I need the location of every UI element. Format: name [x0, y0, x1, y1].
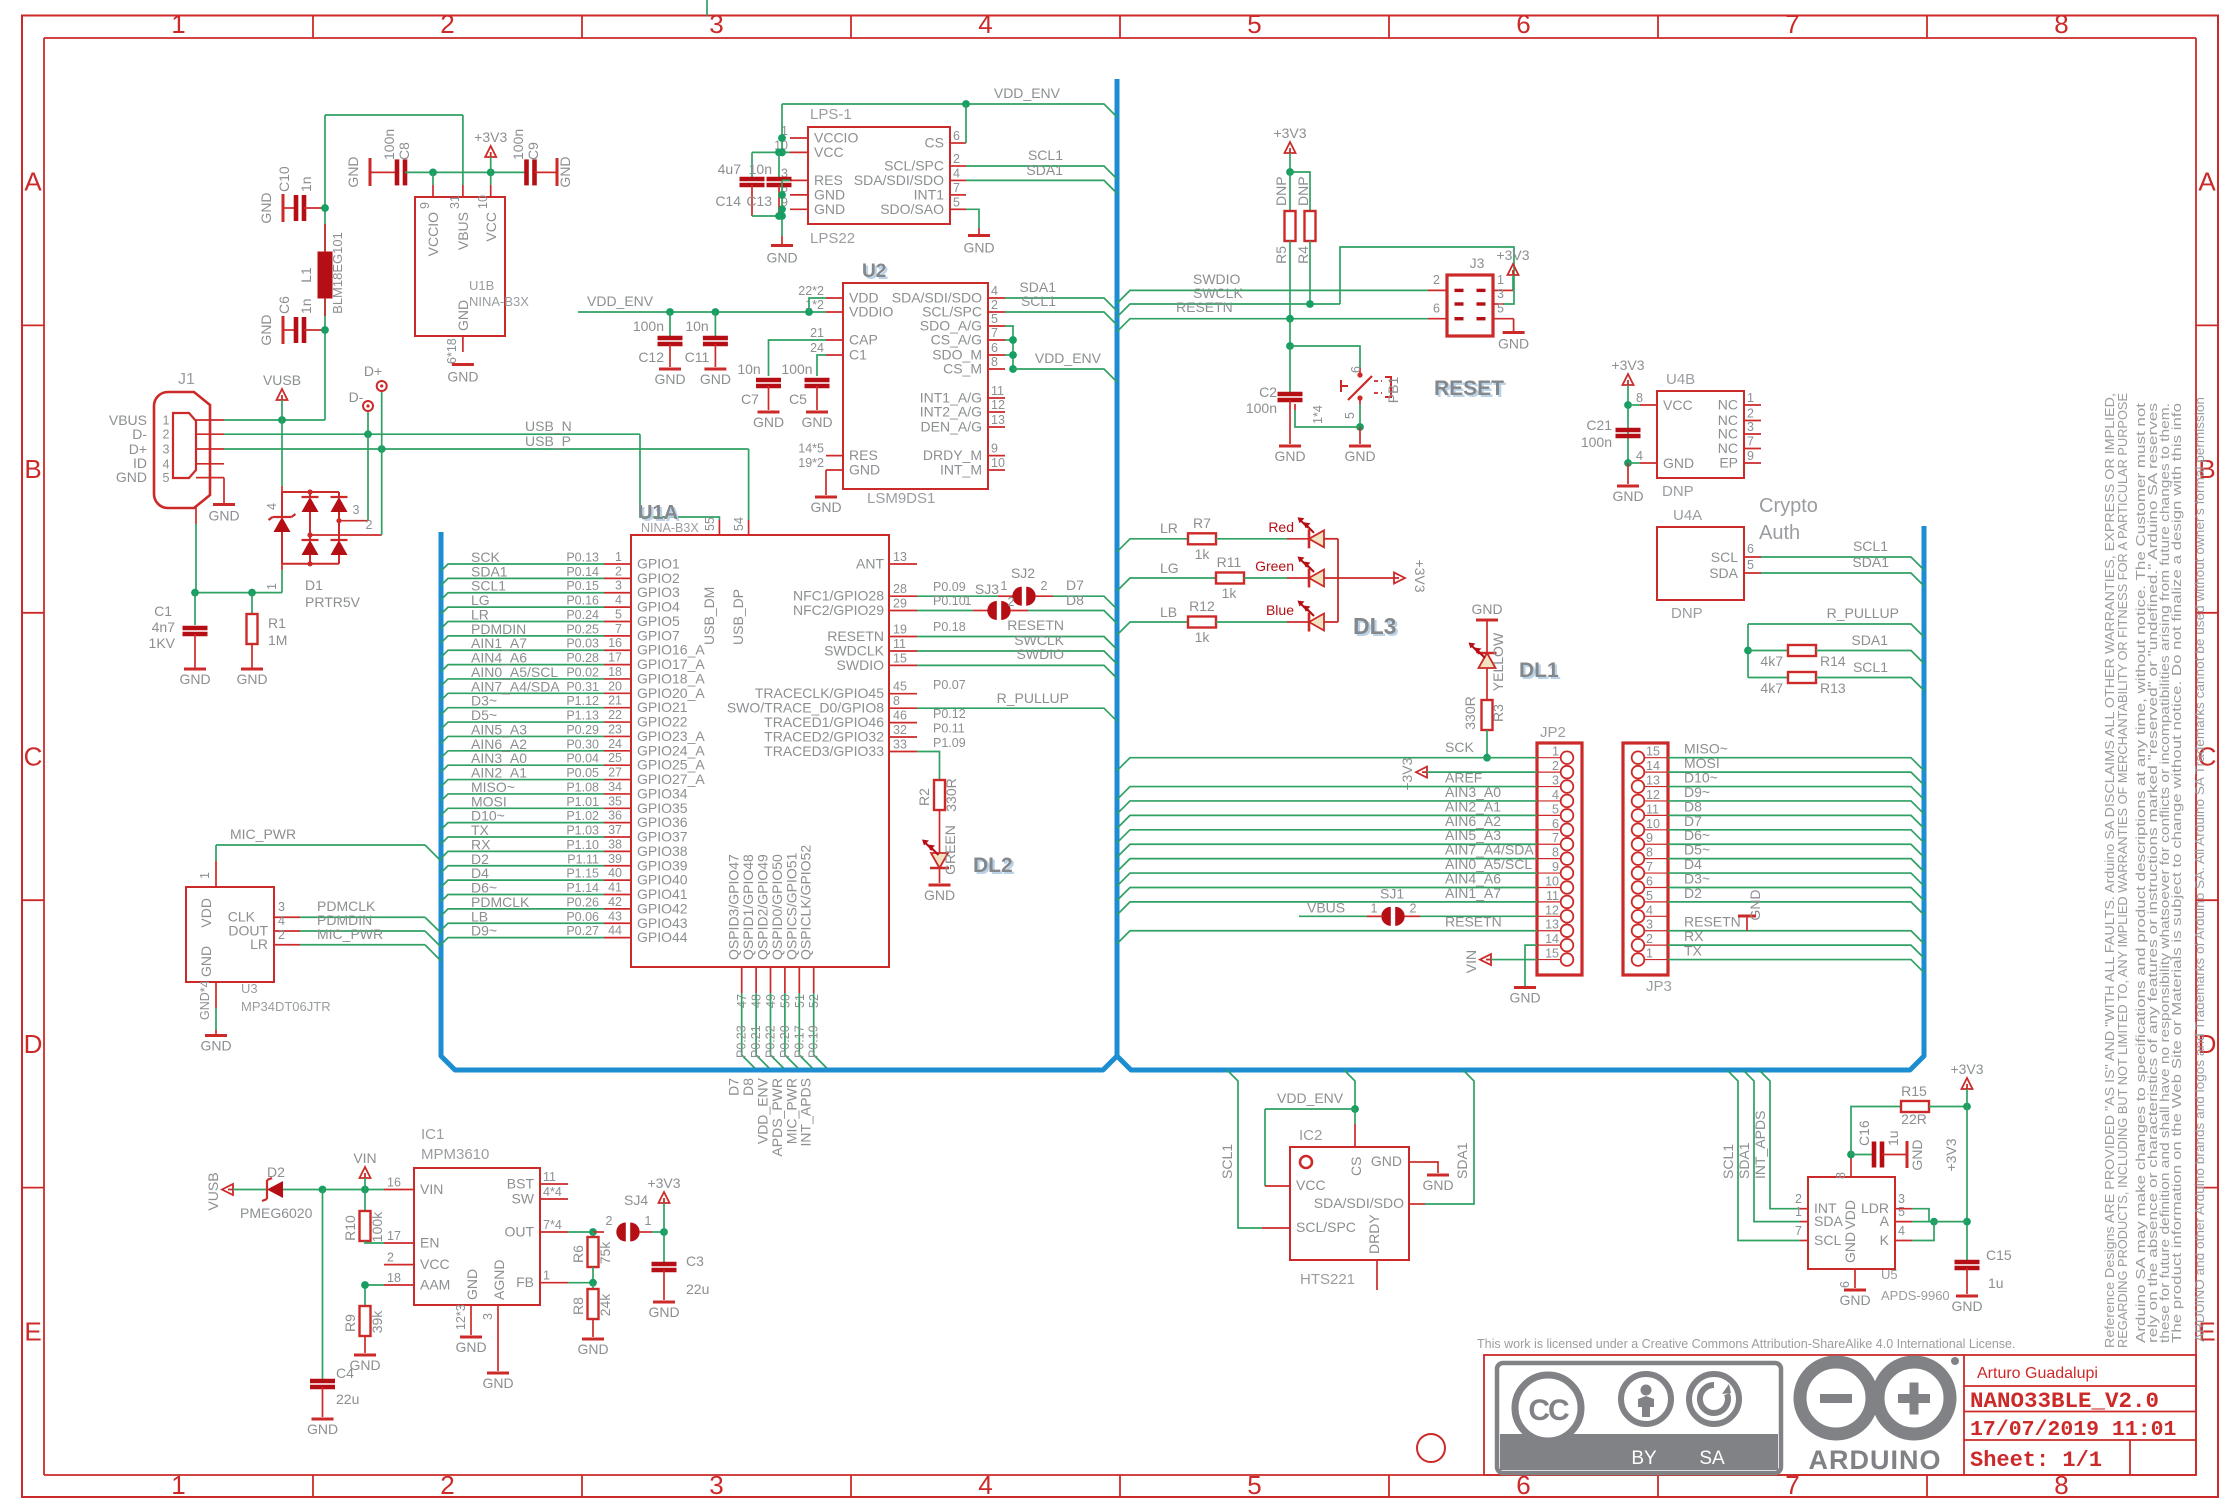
diode D2 PMEG6020: [233, 1189, 267, 1191]
svg-text:1k: 1k: [1195, 629, 1211, 645]
svg-text:27: 27: [608, 766, 622, 780]
svg-text:14: 14: [1646, 759, 1660, 773]
svg-text:3: 3: [1898, 1192, 1905, 1206]
svg-text:DL1: DL1: [1519, 659, 1559, 682]
junction VBUS C6: [321, 326, 329, 334]
svg-text:1u: 1u: [1988, 1275, 2004, 1291]
svg-text:8: 8: [1834, 1172, 1848, 1179]
svg-text:ARDUINO and other Arduino bran: ARDUINO and other Arduino brands and log…: [2193, 397, 2207, 1342]
svg-text:SJ3: SJ3: [975, 581, 999, 597]
pin 19 RESETN of U1A: [889, 636, 917, 638]
svg-text:Green: Green: [1255, 558, 1294, 574]
svg-text:R11: R11: [1217, 554, 1242, 570]
svg-text:SCL: SCL: [1711, 549, 1738, 565]
svg-text:P0.25: P0.25: [566, 622, 599, 636]
svg-text:C5: C5: [789, 391, 807, 407]
wire OUT to SJ4: [568, 1231, 593, 1233]
svg-text:34: 34: [608, 780, 622, 794]
pin AGND of IC1: [497, 1305, 499, 1371]
svg-text:1k: 1k: [1195, 546, 1211, 562]
wire SDA1 from LPS: [966, 180, 1117, 193]
svg-text:A: A: [2198, 167, 2216, 197]
wire D7 from JP3: [1668, 830, 1924, 843]
svg-text:GND: GND: [1509, 990, 1540, 1006]
junction VDD_ENV CS: [962, 100, 970, 108]
capacitor C4 22u: [322, 1190, 324, 1380]
ground at J3 pin5: [1513, 319, 1515, 331]
svg-text:5: 5: [1552, 802, 1559, 816]
svg-text:10: 10: [991, 456, 1005, 470]
svg-text:P0.26: P0.26: [566, 895, 599, 909]
svg-text:GND: GND: [258, 314, 274, 345]
svg-text:SA: SA: [1699, 1448, 1725, 1469]
svg-text:GND: GND: [753, 414, 784, 430]
svg-text:J3: J3: [1470, 255, 1485, 271]
svg-text:1*4: 1*4: [1311, 405, 1325, 424]
svg-text:MPM3610: MPM3610: [421, 1146, 489, 1163]
svg-text:GND: GND: [198, 946, 214, 977]
svg-text:GND: GND: [1909, 1139, 1925, 1170]
svg-text:+3V3: +3V3: [1496, 247, 1529, 263]
svg-text:R13: R13: [1820, 680, 1846, 696]
svg-text:1: 1: [1646, 947, 1653, 961]
resistor R1 1M: [251, 593, 253, 614]
svg-text:9: 9: [418, 202, 432, 209]
wire D3~ from JP3: [1668, 887, 1924, 900]
svg-text:R7: R7: [1193, 515, 1211, 531]
svg-text:SWDIO: SWDIO: [1017, 646, 1065, 662]
svg-text:4: 4: [265, 503, 279, 510]
ground at DL2: [929, 884, 951, 887]
wire net PDMDIN to U1A pin 7: [441, 636, 604, 643]
junction SJ4 3V3: [660, 1228, 668, 1236]
wire LR to R7: [1117, 539, 1188, 552]
power VUSB arrow left: [222, 1184, 233, 1195]
wire AIN2_A1 to JP2 pin 5: [1117, 815, 1537, 828]
pin 6*18 GND of U1B: [462, 336, 464, 352]
pin VDD of U5: [1850, 1156, 1852, 1177]
svg-text:CS_M: CS_M: [943, 361, 982, 377]
svg-text:ANT: ANT: [856, 556, 884, 572]
svg-text:SDA1: SDA1: [1851, 632, 1888, 648]
wire CAP to C7: [769, 340, 827, 376]
svg-text:2: 2: [440, 9, 454, 39]
ic U1A NINA-B3X module: [631, 535, 889, 967]
wire net MISO~ to U1A pin 34: [441, 794, 604, 801]
ground at C9: [556, 158, 559, 186]
svg-text:P1.11: P1.11: [567, 852, 599, 866]
svg-text:GND: GND: [200, 1038, 231, 1054]
wire net AIN7_A4/SDA to U1A pin 20: [441, 693, 604, 700]
svg-text:D8: D8: [1066, 592, 1084, 608]
svg-text:SJ1: SJ1: [1380, 885, 1404, 901]
svg-text:PB1: PB1: [1385, 377, 1401, 404]
svg-text:R2: R2: [916, 788, 932, 806]
svg-text:VCC: VCC: [420, 1256, 450, 1272]
capacitor C11 10n: [714, 312, 716, 336]
wire GND to JP2 pin14: [1525, 945, 1537, 986]
svg-text:VDDIO: VDDIO: [849, 304, 893, 320]
svg-text:24: 24: [810, 341, 824, 355]
bus left: [441, 79, 1117, 1070]
capacitor C1 4n7 1KV: [194, 593, 196, 625]
svg-text:6: 6: [1838, 1281, 1852, 1288]
junction R15: [1963, 1103, 1971, 1111]
wire AIN7_A4/SDA to JP2 pin 8: [1117, 859, 1537, 872]
svg-text:LPS22: LPS22: [810, 230, 855, 247]
led DL3 blue: [1309, 614, 1324, 631]
svg-text:BLM18EG101: BLM18EG101: [330, 232, 345, 314]
svg-text:+3V3: +3V3: [1611, 357, 1644, 373]
svg-text:R1: R1: [268, 615, 286, 631]
ground at C11: [704, 368, 726, 371]
svg-text:1: 1: [965, 594, 972, 608]
svg-text:7: 7: [1795, 1224, 1802, 1238]
svg-text:GND: GND: [801, 414, 832, 430]
svg-text:GND: GND: [345, 156, 361, 187]
svg-text:SCL1: SCL1: [1853, 659, 1888, 675]
svg-text:SCL1: SCL1: [1720, 1144, 1736, 1179]
ground at C2: [1279, 445, 1301, 448]
svg-text:1n: 1n: [298, 298, 314, 314]
svg-text:5: 5: [615, 607, 622, 621]
svg-text:39k: 39k: [369, 1310, 385, 1334]
capacitor C2 100n: [1289, 346, 1291, 392]
resistor R14 4k7: [1748, 650, 1788, 652]
wire PB1 1*4 branch: [1295, 410, 1360, 427]
wire SWDIO to J3: [1117, 290, 1428, 303]
svg-text:330R: 330R: [943, 778, 959, 811]
wire net AIN5_A3 to U1A pin 23: [441, 736, 604, 743]
ground at JP3 RESETN: [1746, 916, 1748, 931]
svg-text:100n: 100n: [633, 318, 664, 334]
pin 15 SWDIO of U1A: [889, 664, 917, 666]
ground at C15: [1956, 1295, 1978, 1298]
svg-text:12: 12: [991, 398, 1005, 412]
svg-text:R14: R14: [1820, 653, 1846, 669]
svg-text:FB: FB: [516, 1274, 534, 1290]
svg-text:NINA-B3X: NINA-B3X: [641, 521, 699, 535]
svg-text:P1.02: P1.02: [566, 809, 599, 823]
power +3V3 at J3: [1508, 264, 1519, 275]
svg-text:C11: C11: [685, 349, 710, 365]
junction D-: [364, 430, 372, 438]
ground at C3: [653, 1301, 675, 1304]
svg-text:7: 7: [1785, 9, 1799, 39]
wire D2 from JP3: [1668, 902, 1924, 915]
svg-text:GND: GND: [1612, 488, 1643, 504]
wire R_PULLUP right: [1748, 624, 1924, 637]
svg-text:SCL1: SCL1: [1021, 293, 1056, 309]
svg-text:VIN: VIN: [1463, 950, 1479, 973]
svg-text:12*3: 12*3: [454, 1304, 468, 1330]
wire net AIN0_A5/SCL to U1A pin 18: [441, 679, 604, 686]
svg-text:C14: C14: [715, 193, 741, 209]
svg-text:5: 5: [953, 195, 960, 209]
svg-text:VDD_ENV: VDD_ENV: [587, 293, 654, 309]
wire AIN4_A6 to JP2 pin 10: [1117, 887, 1537, 900]
svg-text:EN: EN: [420, 1235, 439, 1251]
wire to R4: [1290, 172, 1310, 211]
resistor R12 1k: [1188, 617, 1216, 628]
svg-text:P1.13: P1.13: [566, 709, 599, 723]
junction rail pin10: [487, 169, 495, 177]
svg-text:9: 9: [1552, 860, 1559, 874]
svg-text:2: 2: [1410, 901, 1417, 915]
svg-text:SDA: SDA: [1709, 565, 1738, 581]
svg-text:1n: 1n: [298, 176, 314, 192]
svg-text:14*5: 14*5: [798, 442, 824, 456]
svg-text:D+: D+: [364, 363, 382, 379]
wire net AIN2_A1 to U1A pin 27: [441, 780, 604, 787]
svg-text:21: 21: [608, 694, 622, 708]
svg-text:19*2: 19*2: [798, 456, 824, 470]
ground at C10: [282, 194, 285, 222]
svg-text:RESET: RESET: [1434, 377, 1504, 400]
svg-text:P0.29: P0.29: [566, 723, 599, 737]
wire R15 to 3V3: [1929, 1106, 1967, 1108]
svg-text:24k: 24k: [597, 1293, 613, 1317]
ground under U1B: [452, 363, 474, 366]
pin 29 NFC2/GPIO29 of U1A: [889, 610, 917, 612]
svg-text:5: 5: [1247, 9, 1261, 39]
wire USB_N: [224, 433, 640, 435]
pin 2 of D1 to D+ line: [310, 534, 382, 536]
svg-text:22u: 22u: [336, 1391, 359, 1407]
ic U4B crypto power block: [1657, 391, 1744, 478]
wire VDD pin: [809, 298, 826, 312]
svg-text:8: 8: [1636, 391, 1643, 405]
svg-text:1: 1: [1001, 579, 1008, 593]
svg-text:MIC_PWR: MIC_PWR: [317, 926, 383, 942]
svg-text:C13: C13: [746, 193, 772, 209]
svg-text:D1: D1: [305, 577, 323, 593]
wire net LG to U1A pin 4: [441, 607, 604, 614]
svg-text:SCL: SCL: [1814, 1232, 1841, 1248]
wire net MOSI to U1A pin 35: [441, 808, 604, 815]
svg-text:C6: C6: [276, 296, 292, 314]
svg-text:VBUS: VBUS: [455, 212, 471, 250]
wire VDD_ENV down to LPS power: [781, 104, 783, 152]
pin 33 TRACED3/GPIO33 of U1A: [889, 751, 917, 753]
svg-text:1: 1: [645, 1214, 652, 1228]
pin 46 TRACED1/GPIO46 of U1A: [889, 722, 917, 724]
svg-text:P1.09: P1.09: [933, 736, 966, 750]
svg-text:42: 42: [608, 895, 622, 909]
svg-text:GND: GND: [1842, 1232, 1858, 1263]
svg-text:SCL1: SCL1: [1853, 538, 1888, 554]
svg-text:DEN_A/G: DEN_A/G: [921, 419, 982, 435]
ground at R1: [241, 668, 263, 671]
svg-text:22u: 22u: [686, 1281, 709, 1297]
pin 13 ANT of U1A: [889, 563, 917, 565]
wire net AIN6_A2 to U1A pin 24: [441, 751, 604, 758]
capacitor C6: [283, 329, 296, 331]
svg-text:C9: C9: [525, 142, 541, 160]
svg-text:4k7: 4k7: [1760, 653, 1783, 669]
wire SDA1 from IC2 to bus: [1409, 1203, 1425, 1205]
svg-text:2: 2: [953, 152, 960, 166]
power VIN to JP2 pin15: [1480, 954, 1491, 965]
svg-text:INT2_A/G: INT2_A/G: [920, 404, 982, 420]
svg-text:GND: GND: [1344, 448, 1375, 464]
wire cap gnd rail: [752, 215, 782, 217]
svg-text:1KV: 1KV: [149, 635, 176, 651]
ic LPS-1 LPS22 pressure sensor: [808, 127, 950, 224]
svg-text:GND: GND: [700, 371, 731, 387]
svg-text:P0.06: P0.06: [566, 910, 599, 924]
svg-text:3: 3: [481, 1313, 495, 1320]
svg-text:35: 35: [608, 794, 622, 808]
wire RESETN from JP3: [1668, 931, 1924, 944]
svg-text:VUSB: VUSB: [205, 1172, 221, 1210]
cc license badge: [1497, 1363, 1781, 1473]
svg-text:B: B: [24, 454, 41, 484]
capacitor C5 100n: [805, 378, 830, 383]
svg-text:NC: NC: [1718, 397, 1738, 413]
wire RX from JP3: [1668, 945, 1924, 958]
ground at C7: [758, 411, 780, 414]
svg-text:GPIO44: GPIO44: [637, 929, 688, 945]
svg-text:P0.17: P0.17: [792, 1025, 806, 1058]
svg-text:17: 17: [608, 651, 622, 665]
svg-text:BY: BY: [1631, 1448, 1657, 1469]
svg-text:P0.22: P0.22: [764, 1025, 778, 1058]
svg-text:11: 11: [991, 384, 1004, 398]
wire RESETN junction down: [1289, 319, 1291, 346]
svg-text:GND: GND: [1839, 1292, 1870, 1308]
svg-text:INT_APDS: INT_APDS: [1752, 1111, 1768, 1179]
svg-text:SDA1: SDA1: [1852, 554, 1889, 570]
svg-text:100n: 100n: [510, 129, 526, 160]
svg-text:VDD_ENV: VDD_ENV: [1035, 350, 1102, 366]
pin 11 SWDCLK of U1A: [889, 650, 917, 652]
capacitor C12 100n: [669, 312, 671, 336]
power +3V3 R5R4: [1285, 142, 1296, 153]
wire VDD_ENV to bus: [782, 104, 1117, 117]
ic IC1 MPM3610: [414, 1168, 540, 1305]
wire net AIN3_A0 to U1A pin 25: [441, 765, 604, 772]
svg-text:GND: GND: [1951, 1298, 1982, 1314]
svg-text:LR: LR: [1160, 520, 1178, 536]
svg-text:P0.14: P0.14: [566, 565, 599, 579]
svg-text:INT_APDS: INT_APDS: [798, 1078, 814, 1146]
svg-text:SDA1: SDA1: [1026, 162, 1063, 178]
wire TRACED3 to R2: [917, 752, 940, 781]
wire AREF to JP2 pin 3: [1117, 787, 1537, 800]
junction C12: [666, 308, 674, 316]
svg-text:P0.05: P0.05: [566, 766, 599, 780]
wire SCL1 bus to U5: [1727, 1070, 1800, 1241]
svg-text:Sheet: 1/1: Sheet: 1/1: [1970, 1448, 2102, 1473]
ground under C21: [1627, 463, 1629, 484]
svg-text:GND: GND: [963, 240, 994, 256]
svg-text:+3V3: +3V3: [1950, 1061, 1983, 1077]
svg-text:55: 55: [703, 517, 717, 531]
svg-text:C21: C21: [1586, 417, 1612, 433]
led DL2 GREEN: [939, 810, 941, 853]
svg-text:28: 28: [893, 582, 907, 596]
wire K loop: [1895, 1240, 1912, 1242]
svg-text:2: 2: [163, 428, 170, 442]
svg-text:D7: D7: [1066, 577, 1084, 593]
wire SDA1 R14: [1816, 651, 1924, 664]
junction D+: [378, 445, 386, 453]
svg-text:10n: 10n: [737, 361, 760, 377]
wire VDD to R15: [1851, 1107, 1901, 1155]
svg-text:VIN: VIN: [420, 1181, 443, 1197]
svg-text:GND: GND: [1747, 889, 1763, 920]
svg-text:R9: R9: [342, 1314, 358, 1332]
wire D9~ from JP3: [1668, 801, 1924, 814]
svg-text:5: 5: [1497, 302, 1504, 316]
svg-text:Red: Red: [1268, 519, 1294, 535]
svg-text:20: 20: [608, 679, 622, 693]
svg-text:19: 19: [893, 623, 907, 637]
wire LB to R12: [1117, 622, 1188, 635]
svg-text:100k: 100k: [369, 1211, 385, 1242]
svg-text:U3: U3: [241, 981, 258, 996]
wire R12 to blue led: [1216, 621, 1287, 623]
wire SCL1 U2 to bus: [1005, 312, 1117, 325]
svg-text:32: 32: [893, 723, 907, 737]
zener in D1: [281, 492, 283, 517]
svg-text:P0.23: P0.23: [735, 1025, 749, 1058]
svg-text:7: 7: [615, 622, 622, 636]
svg-text:1: 1: [265, 583, 279, 590]
svg-text:3: 3: [1747, 420, 1754, 434]
wire RESETN from U1A: [917, 637, 1117, 650]
svg-text:P0.27: P0.27: [566, 924, 599, 938]
svg-text:GND: GND: [464, 1269, 480, 1300]
wire SCL1 from LPS: [966, 166, 1117, 179]
svg-text:11: 11: [1546, 889, 1559, 903]
wire stub top border: [706, 0, 708, 16]
wire net LB to U1A pin 43: [441, 923, 604, 930]
svg-text:C: C: [24, 742, 43, 772]
svg-text:YELLOW: YELLOW: [1490, 632, 1506, 691]
power +3V3 U5: [1962, 1078, 1973, 1089]
ic U2 LSM9DS1 IMU: [843, 283, 988, 489]
capacitor C10: [283, 207, 296, 209]
svg-text:6: 6: [1516, 9, 1530, 39]
svg-text:SDA: SDA: [1814, 1213, 1843, 1229]
ground at C8: [369, 158, 372, 186]
svg-text:GND: GND: [557, 156, 573, 187]
svg-text:38: 38: [608, 837, 622, 851]
svg-text:13: 13: [1545, 918, 1559, 932]
svg-text:5: 5: [1646, 889, 1653, 903]
svg-text:GND: GND: [648, 1304, 679, 1320]
wire MIC_PWR from U3 LR: [274, 944, 300, 946]
svg-text:VIN: VIN: [353, 1150, 376, 1166]
svg-text:SJ4: SJ4: [624, 1192, 648, 1208]
svg-text:9: 9: [991, 442, 998, 456]
wire AAM to R9: [365, 1285, 384, 1306]
svg-text:1M: 1M: [268, 632, 287, 648]
junction PB1 gnd: [1356, 423, 1364, 431]
svg-text:8: 8: [1552, 846, 1559, 860]
svg-text:GREEN: GREEN: [942, 825, 958, 875]
svg-text:E: E: [24, 1316, 41, 1346]
ground at J1 pin5: [223, 478, 225, 503]
wire net SDA1 to U1A pin 2: [441, 578, 604, 585]
svg-text:GND: GND: [577, 1341, 608, 1357]
svg-text:GND: GND: [810, 499, 841, 515]
svg-text:DRDY: DRDY: [1366, 1214, 1382, 1254]
svg-text:ARDUINO: ARDUINO: [1809, 1445, 1942, 1475]
wire R11 to green led: [1244, 577, 1287, 579]
